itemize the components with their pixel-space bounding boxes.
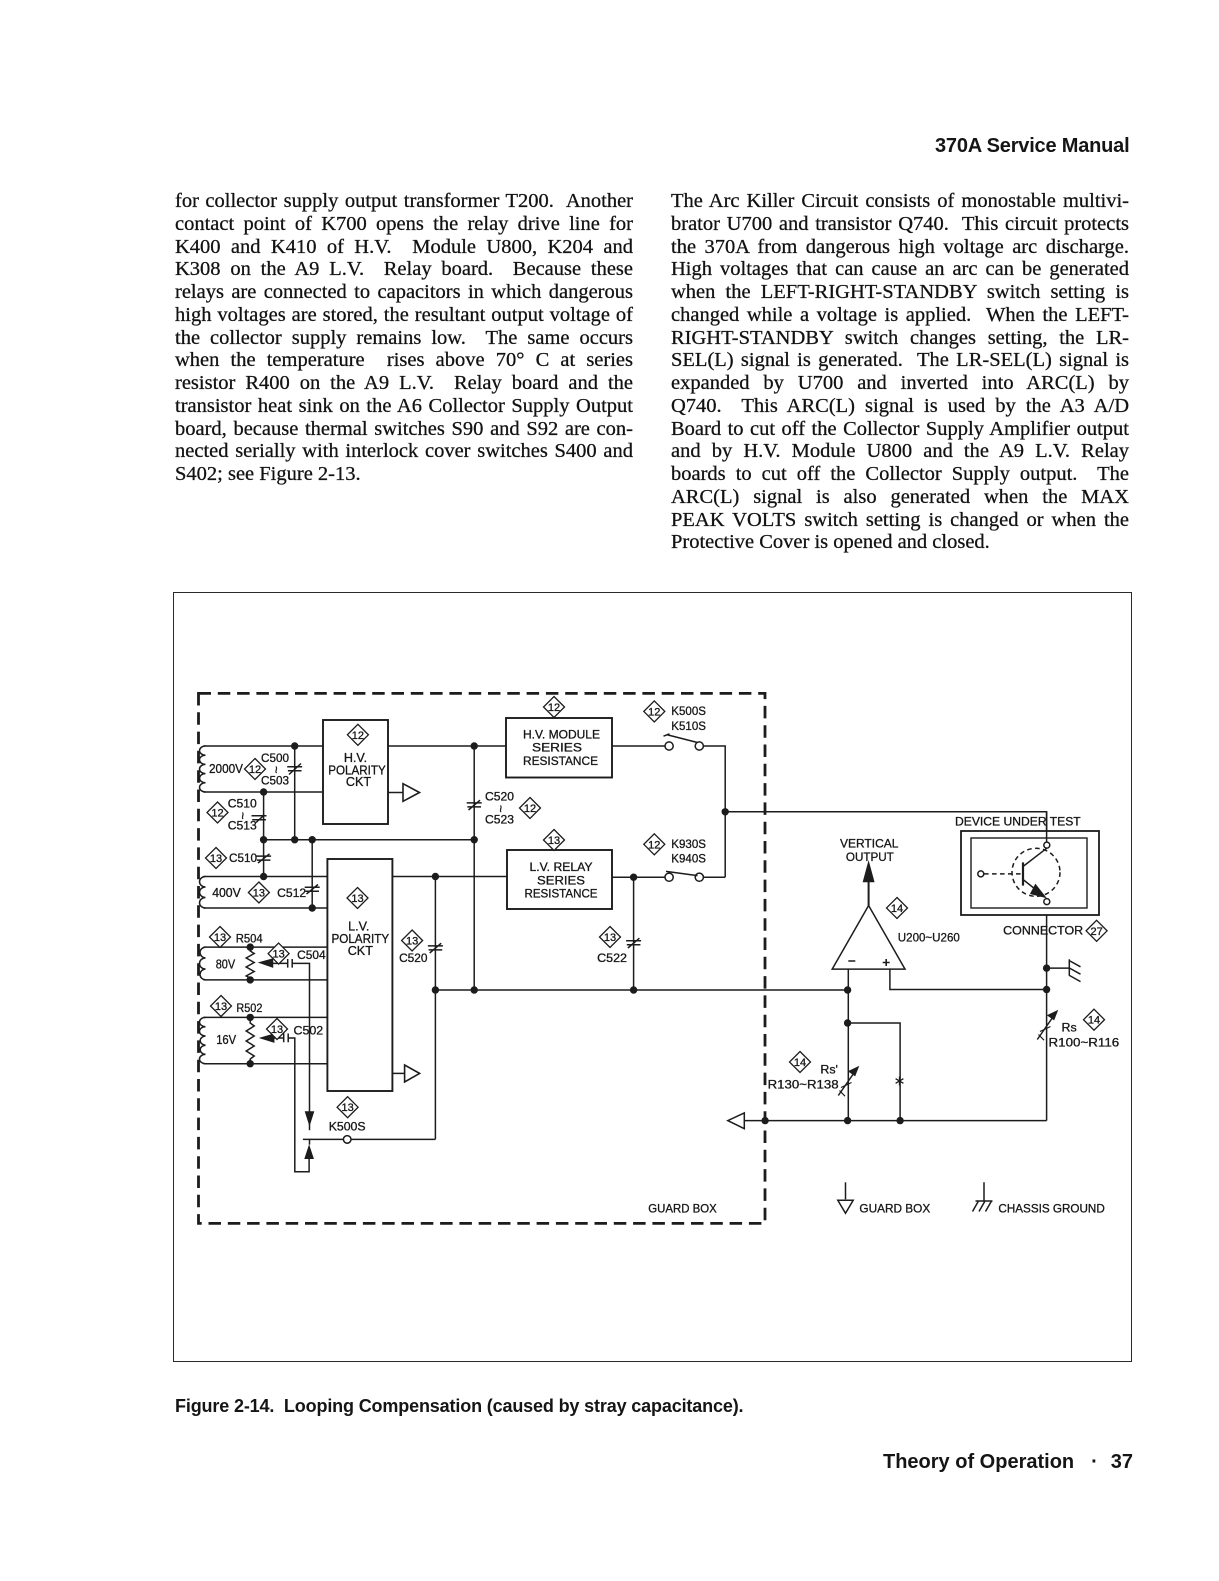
diamond 13 at C520 — [402, 930, 423, 951]
diamond 14 at Rs — [1084, 1009, 1105, 1030]
H.V. polarity output arrow — [403, 784, 420, 802]
diamond 12 at K500S — [644, 701, 665, 722]
svg-text:13: 13 — [271, 1024, 283, 1036]
svg-text:13: 13 — [210, 853, 222, 865]
svg-text:Rs: Rs — [1062, 1021, 1077, 1035]
wire: H.V. polarity box to H.V. module box — [388, 745, 506, 747]
wire: 400V top — [204, 876, 328, 878]
diamond 14 at Rs' — [790, 1052, 811, 1073]
svg-text:80V: 80V — [216, 957, 236, 972]
svg-text:C510: C510 — [228, 797, 257, 811]
capacitor C504 symbol — [288, 959, 293, 968]
resistor R502 — [246, 1017, 254, 1063]
wiper arrow of R504 to C504 — [272, 962, 288, 964]
transformer winding 2000V — [199, 746, 205, 792]
wire: C512 branch down to 400V bottom — [311, 840, 313, 908]
wire: C502 path down and around — [288, 1038, 309, 1172]
wire: 2000V bottom to H.V. polarity box — [204, 791, 324, 793]
wire: op-amp minus input down through Rs' — [847, 969, 849, 1121]
L.V. relay series resistance box — [507, 850, 612, 909]
svg-text:K510S: K510S — [671, 719, 706, 733]
junction dots — [247, 742, 1051, 1124]
wire: C520-C523 vertical — [473, 746, 475, 990]
svg-text:H.V. MODULE: H.V. MODULE — [523, 728, 600, 742]
svg-text:C502: C502 — [294, 1024, 324, 1038]
svg-text:CHASSIS GROUND: CHASSIS GROUND — [998, 1202, 1104, 1216]
wire: C522 vertical — [633, 877, 635, 990]
wire: 16V top — [204, 1016, 328, 1018]
op-amp U200~U260 — [832, 906, 905, 970]
svg-text:CKT: CKT — [348, 944, 373, 958]
switch K500S/K510S contacts — [665, 742, 673, 750]
svg-text:13: 13 — [341, 1102, 353, 1114]
switch K930S/K940S contacts — [665, 873, 673, 881]
svg-text:14: 14 — [1088, 1015, 1100, 1027]
capacitor C522 symbol — [626, 938, 641, 948]
svg-text:R504: R504 — [236, 931, 263, 945]
diamond 12 in H.V. polarity box — [347, 724, 368, 745]
svg-text:12: 12 — [524, 803, 536, 815]
wire: C504 path down — [292, 963, 310, 1112]
diamond 13 at C502 — [267, 1019, 288, 1040]
vertical output arrow — [868, 880, 870, 906]
wire: 400V bottom — [204, 907, 328, 909]
svg-text:12: 12 — [352, 730, 364, 742]
down arrow into K500S bottom switch — [306, 1112, 314, 1124]
svg-text:U200~U260: U200~U260 — [898, 931, 960, 945]
svg-text:12: 12 — [648, 839, 660, 851]
svg-text:C523: C523 — [485, 812, 514, 826]
svg-text:R130~R138: R130~R138 — [768, 1078, 839, 1092]
wire: op-amp plus input to DUT line — [890, 969, 1047, 989]
H.V. module series resistance box — [506, 718, 612, 778]
svg-text:K940S: K940S — [671, 852, 706, 866]
variable resistor Rs — [1037, 1017, 1053, 1040]
left text column — [175, 190, 633, 486]
guard box legend symbol — [845, 1182, 847, 1199]
wire: L.V. polarity box to L.V. relay box — [392, 876, 507, 878]
capacitor C510~C513 symbol — [252, 815, 267, 823]
svg-text:13: 13 — [215, 1001, 227, 1013]
svg-text:R100~R116: R100~R116 — [1049, 1035, 1120, 1049]
diamond 12 at C510~C513 — [207, 802, 228, 823]
wire: 80V bottom — [204, 979, 328, 981]
wire: lower bus — [435, 989, 847, 991]
wire: 16V bottom — [204, 1063, 328, 1065]
svg-text:DEVICE UNDER TEST: DEVICE UNDER TEST — [955, 814, 1081, 828]
wire: K500S to down corner joining K930S — [703, 746, 725, 877]
diamond 27 at connector — [1086, 920, 1107, 941]
svg-text:Rs': Rs' — [820, 1063, 838, 1077]
svg-text:R502: R502 — [236, 1001, 262, 1015]
capacitor C520~C523 symbol — [467, 800, 482, 810]
svg-text:GUARD BOX: GUARD BOX — [859, 1202, 930, 1216]
diamond 12 at K930S — [644, 834, 665, 855]
header: 370A Service Manual — [935, 135, 1129, 158]
svg-text:16V: 16V — [216, 1032, 236, 1047]
wiper arrow of R502 to C502 — [273, 1037, 284, 1039]
wire: H.V. polarity output stub — [388, 792, 403, 794]
svg-text:C510: C510 — [229, 851, 257, 865]
asterisk mark on loop branch — [896, 1077, 904, 1086]
svg-text:RESISTANCE: RESISTANCE — [525, 887, 598, 901]
svg-text:C522: C522 — [597, 951, 627, 965]
wire: L.V. polarity output stub — [392, 1072, 404, 1074]
device under test outer box — [961, 831, 1099, 915]
wire: bus below H.V. polarity — [264, 839, 475, 841]
svg-text:SERIES: SERIES — [532, 741, 582, 755]
wire: K500S bottom switch line — [303, 1138, 436, 1140]
svg-text:K500S: K500S — [671, 704, 706, 718]
wire: L.V. relay box to K930S switch — [612, 876, 665, 878]
svg-text:RESISTANCE: RESISTANCE — [523, 754, 598, 768]
wire: H.V. module box to K500S switch — [612, 745, 665, 747]
up arrow into K500S bottom switch — [305, 1147, 313, 1159]
diamond 13 at R504 — [210, 927, 231, 948]
diamond 13 at C522 — [600, 927, 621, 948]
diamond 12 at C520~C523 — [520, 798, 541, 819]
diamond 12 at 2000V — [245, 759, 266, 780]
device under test inner box — [971, 838, 1087, 908]
svg-text:C520: C520 — [399, 951, 428, 965]
svg-text:27: 27 — [1090, 926, 1102, 938]
svg-text:400V: 400V — [212, 885, 241, 900]
wire: C520 branch down to K500S bottom switch — [434, 877, 436, 1140]
resistor R504 — [246, 947, 254, 980]
left pointing arrow on bottom return — [728, 1113, 745, 1129]
footer — [883, 1451, 1133, 1474]
H.V. polarity ckt box — [323, 720, 388, 824]
svg-text:VERTICAL: VERTICAL — [840, 837, 898, 851]
svg-text:CONNECTOR: CONNECTOR — [1003, 924, 1083, 938]
capacitor C512 symbol — [305, 885, 320, 895]
wire DUT top terminal — [1046, 812, 1048, 842]
L.V. polarity output arrow — [405, 1065, 420, 1082]
capacitor C520 symbol — [428, 943, 443, 953]
figure frame — [173, 592, 1132, 1362]
svg-text:K930S: K930S — [671, 837, 706, 851]
wire: 80V top — [204, 946, 328, 948]
svg-text:13: 13 — [406, 936, 418, 948]
diamond 13 at C504 — [268, 943, 289, 964]
diamond 13 above L.V. relay box — [544, 830, 565, 851]
svg-text:14: 14 — [891, 903, 903, 915]
svg-text:2000V: 2000V — [209, 761, 243, 776]
svg-text:C504: C504 — [297, 948, 326, 962]
svg-text:L.V. RELAY: L.V. RELAY — [530, 860, 593, 874]
figure caption — [175, 1396, 743, 1417]
reference diamonds — [206, 697, 1108, 1118]
right text column — [671, 190, 1129, 554]
svg-text:SERIES: SERIES — [537, 873, 585, 887]
diamond 13 in L.V. polarity box — [347, 888, 368, 909]
svg-text:CKT: CKT — [346, 775, 371, 789]
chassis ground at DUT — [1069, 959, 1080, 981]
diamond 13 at K500S bottom — [337, 1097, 358, 1118]
svg-text:13: 13 — [548, 835, 560, 847]
svg-text:12: 12 — [211, 808, 223, 820]
L.V. polarity ckt box — [327, 859, 392, 1091]
svg-text:13: 13 — [272, 949, 284, 961]
switch K500S bottom contact — [343, 1136, 351, 1144]
transistor in DUT — [1012, 848, 1060, 896]
wire: DUT bottom down through Rs — [1046, 904, 1048, 1120]
svg-text:C520: C520 — [485, 790, 514, 804]
svg-text:12: 12 — [648, 706, 660, 718]
transformer winding 400V — [200, 877, 206, 909]
svg-text:12: 12 — [249, 764, 261, 776]
diamond 13 at 400V — [248, 882, 269, 903]
svg-text:12: 12 — [548, 702, 560, 714]
svg-text:14: 14 — [794, 1057, 806, 1069]
svg-text:GUARD BOX: GUARD BOX — [648, 1202, 717, 1216]
capacitor C510 symbol — [256, 854, 271, 863]
svg-text:K500S: K500S — [329, 1119, 366, 1133]
svg-text:C500: C500 — [261, 751, 289, 765]
wire: bottom return line — [744, 1120, 1046, 1122]
diamond 14 at op-amp — [887, 898, 908, 919]
svg-text:C503: C503 — [261, 774, 289, 788]
diamond 13 at R502 — [211, 996, 232, 1017]
wire: C510 branch down to 400V — [263, 840, 265, 877]
svg-text:C512: C512 — [277, 886, 306, 900]
wire: C510-C513 branch vertical — [263, 792, 265, 840]
svg-text:13: 13 — [351, 893, 363, 905]
wire: junction to device under test — [725, 812, 1046, 842]
chassis ground legend symbol — [973, 1182, 993, 1211]
wire: chassis ground stub at DUT — [1047, 967, 1070, 969]
wire: C500 branch vertical — [294, 746, 296, 840]
svg-text:13: 13 — [604, 932, 616, 944]
capacitor C502 symbol — [284, 1034, 289, 1043]
diamond 12 above H.V. module box — [544, 697, 565, 718]
wire: Rs' parallel loop branch — [848, 1023, 901, 1121]
transformer winding 16V — [199, 1017, 205, 1063]
wire: 2000V top to H.V. polarity box — [204, 745, 324, 747]
svg-text:13: 13 — [253, 888, 265, 900]
wire: K930S right contact joint — [703, 876, 725, 878]
svg-text:C513: C513 — [228, 819, 257, 833]
variable resistor Rs' — [838, 1073, 854, 1096]
diamond 13 at C510 — [206, 848, 227, 869]
svg-text:OUTPUT: OUTPUT — [846, 850, 894, 864]
svg-text:13: 13 — [214, 932, 226, 944]
transformer winding 80V — [199, 947, 205, 980]
capacitor C500~C503 symbol — [287, 764, 302, 775]
guard box dashed border — [199, 693, 766, 1223]
